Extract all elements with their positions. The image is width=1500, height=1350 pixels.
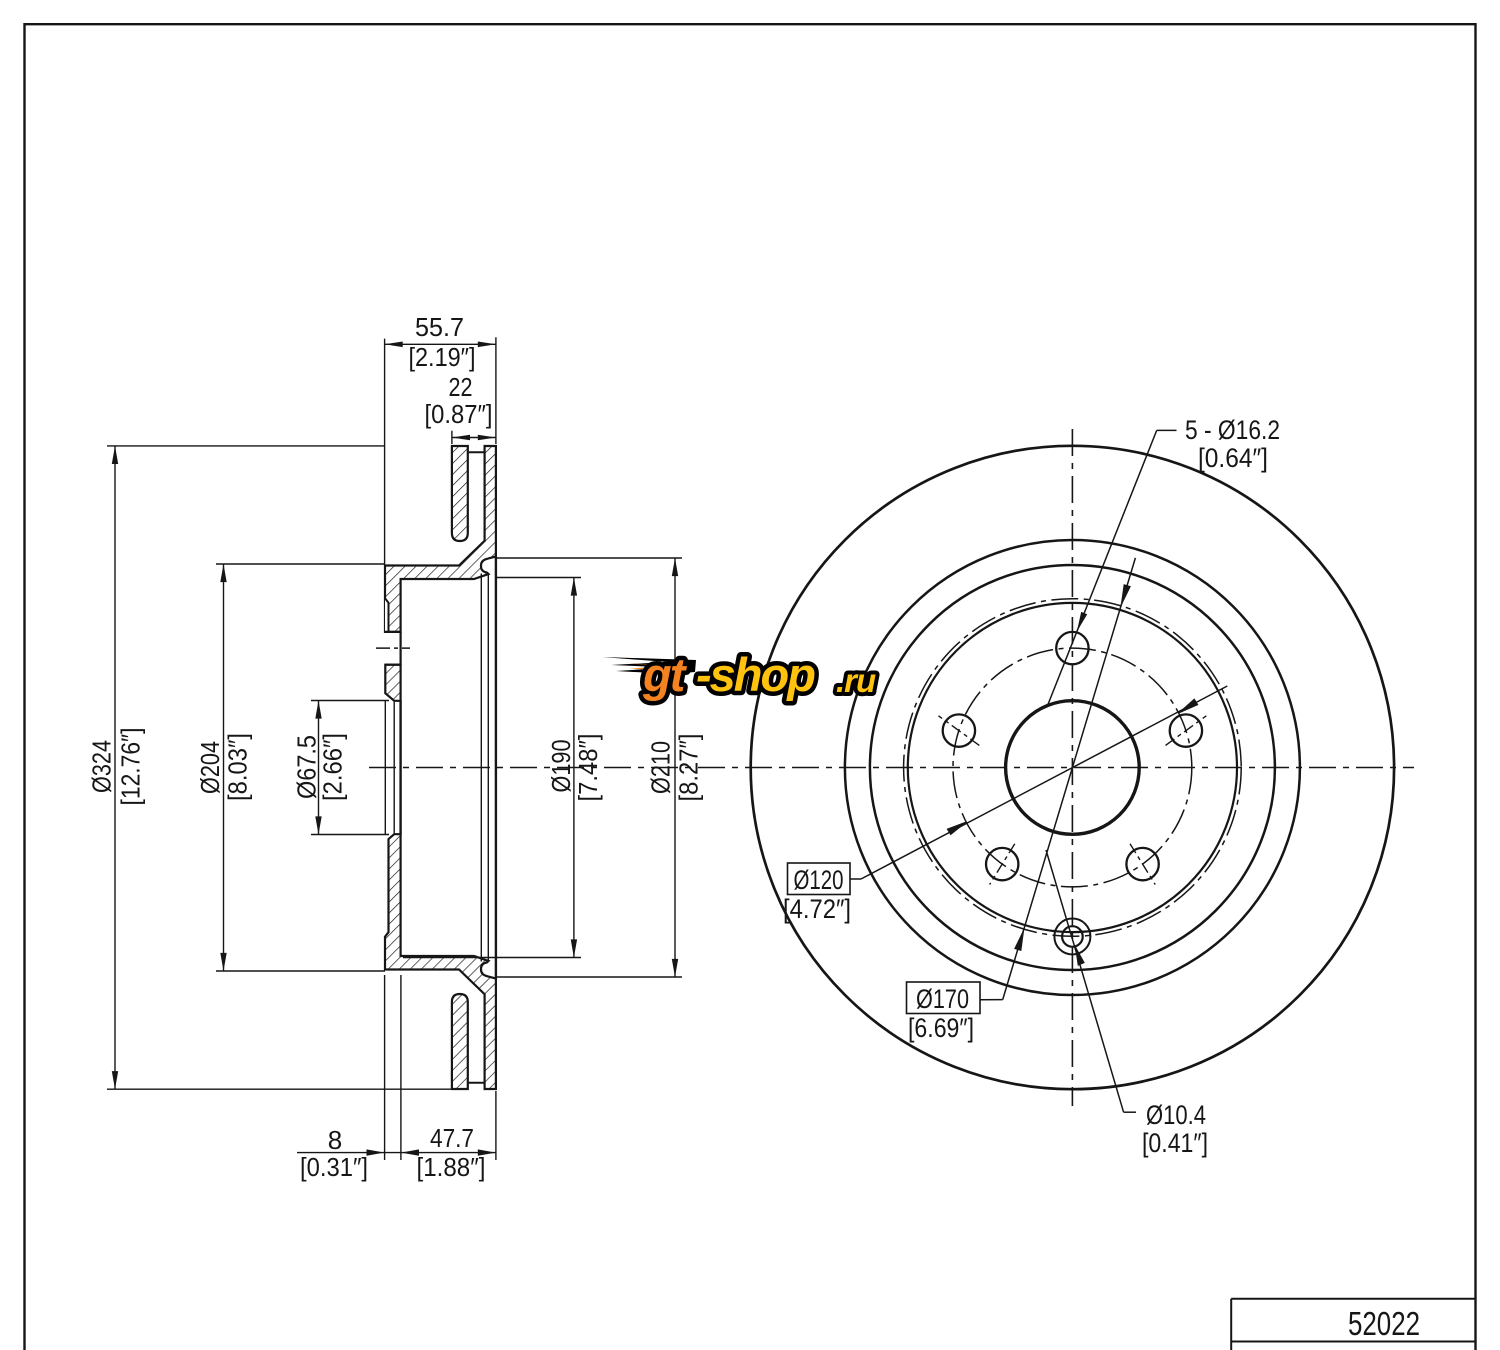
dimension 55.7 extension lines [384,339,386,565]
svg-text:[8.03″]: [8.03″] [223,733,253,801]
dimension 55.7 line [385,343,496,345]
radial tick hole 306deg [1130,844,1155,885]
bore chamfer projected line [393,701,395,834]
dimension 22 extension line [451,431,453,444]
dimension Ø324 line [114,446,116,1089]
vent slot recess edge (bottom) [468,1082,485,1084]
bolt hole 18deg [1170,714,1202,746]
friction inner edge circle [845,540,1300,995]
label Ø170 boxed [907,982,981,1014]
svg-text:Ø120: Ø120 [794,865,844,895]
dimension Ø190 extension lines [497,577,581,579]
svg-text:[4.72″]: [4.72″] [783,894,851,924]
svg-text:47.7: 47.7 [430,1123,474,1153]
flange face projected line 1 [480,574,482,962]
dimension Ø210 line [674,558,676,977]
outboard plate + cone + hat drum + flange (bottom half) [385,834,496,1089]
svg-text:[0.31″]: [0.31″] [300,1152,368,1182]
svg-text:[0.64″]: [0.64″] [1198,443,1268,473]
dimension Ø190 line [573,578,575,958]
hub bore Ø67.5 [1006,701,1140,835]
svg-text:gt: gt [642,648,688,701]
dimension texts [86,312,703,1182]
inboard friction plate (top) [452,446,468,541]
flange face step (top) [385,598,389,632]
leader ray Ø170 [980,558,1135,1000]
dimension Ø67.5 extension lines [311,700,389,702]
bolt hole 306deg [1126,848,1158,880]
bolt hole back wall line [400,632,402,665]
radial tick hole 234deg [990,844,1015,885]
Ø67.5 arrows [315,701,321,719]
svg-text:8: 8 [328,1125,342,1155]
flange face projected line 2 [487,575,489,960]
bolt circle Ø170 dash-dot [904,599,1242,937]
svg-text:Ø324: Ø324 [86,740,116,793]
Ø204 arrows [220,564,226,582]
flame wing [602,657,696,677]
bolt hole 234deg [986,848,1018,880]
dimension 8 line [297,1152,401,1154]
set screw hole Ø10.4 at 270deg [1062,926,1083,947]
leader ray Ø120 [850,686,1227,879]
label Ø120 boxed [788,863,851,895]
svg-text:22: 22 [449,372,473,402]
flange back face projected line across bore [399,701,401,834]
Ø210 arrows [672,558,678,576]
svg-text:55.7: 55.7 [415,312,464,342]
svg-text:52022: 52022 [1348,1305,1420,1342]
dimension Ø324 extension lines [107,445,385,447]
outboard face projected line [495,557,497,979]
logo text colour layer [642,648,876,701]
svg-text:Ø204: Ø204 [195,741,225,794]
47.7 arrows [401,1149,419,1155]
svg-text:[7.48″]: [7.48″] [573,734,603,802]
set screw countersink circle [1054,919,1090,955]
svg-text:[8.27″]: [8.27″] [674,734,704,802]
outer circle Ø324 [751,446,1394,1089]
Ø190 arrows [571,578,577,596]
flange lower block with bore chamfer (top half) [385,665,400,701]
outboard plate + cone + hat drum + flange (top half) [385,446,496,632]
svg-text:Ø170: Ø170 [916,984,969,1014]
bolt hole top (90deg) [1056,632,1088,664]
svg-text:-shop: -shop [696,648,815,701]
bolt hole 162deg [943,714,975,746]
dimension 47.7 line [401,1152,496,1154]
svg-text:[6.69″]: [6.69″] [908,1013,974,1043]
dimension Ø204 extension lines [216,563,385,565]
dimension Ø67.5 line [318,701,320,835]
vent slot recess edge (top) [468,451,485,453]
svg-text:[2.19″]: [2.19″] [409,342,476,372]
svg-text:[0.87″]: [0.87″] [425,399,493,429]
flange face projected line across bore [384,701,386,834]
dimension 22 line [452,437,496,439]
dimension Ø210 extension lines [496,557,682,559]
radial tick hole 162deg [939,716,980,746]
svg-text:[2.66″]: [2.66″] [318,733,348,801]
leader 5-Ø16.2 [1048,430,1177,705]
22 arrows [452,435,470,441]
svg-text:Ø210: Ø210 [646,741,676,794]
bolt hole axis mark [376,647,410,649]
bolt hole cut lines in flange [385,631,401,633]
svg-text:[12.76″]: [12.76″] [116,728,146,806]
svg-text:[1.88″]: [1.88″] [417,1152,486,1182]
Ø324 arrows [112,446,118,464]
leader Ø10.4 [1046,850,1136,1112]
dimension 8 / 47.7 extension lines [384,975,386,1160]
bolt circle Ø120 dash-dot [953,648,1192,887]
hat outer circle Ø204 [870,565,1275,970]
svg-text:[0.41″]: [0.41″] [1142,1128,1208,1158]
svg-text:5 - Ø16.2: 5 - Ø16.2 [1185,415,1280,445]
dimension Ø204 line [223,564,225,971]
logo text outline layer [642,648,876,701]
8 arrow [367,1149,385,1155]
svg-text:.ru: .ru [836,662,876,699]
vertical centerline [1071,429,1073,1106]
flange step circle [908,603,1237,932]
svg-text:Ø10.4: Ø10.4 [1146,1100,1206,1130]
radial tick hole 18deg [1166,716,1207,746]
main axis centerline [369,767,1414,769]
title block [1231,1299,1475,1350]
svg-text:Ø190: Ø190 [546,740,576,793]
55.7 arrows [385,342,403,348]
dimension arrowheads [112,342,678,1156]
inboard friction plate (bottom) [452,994,468,1089]
